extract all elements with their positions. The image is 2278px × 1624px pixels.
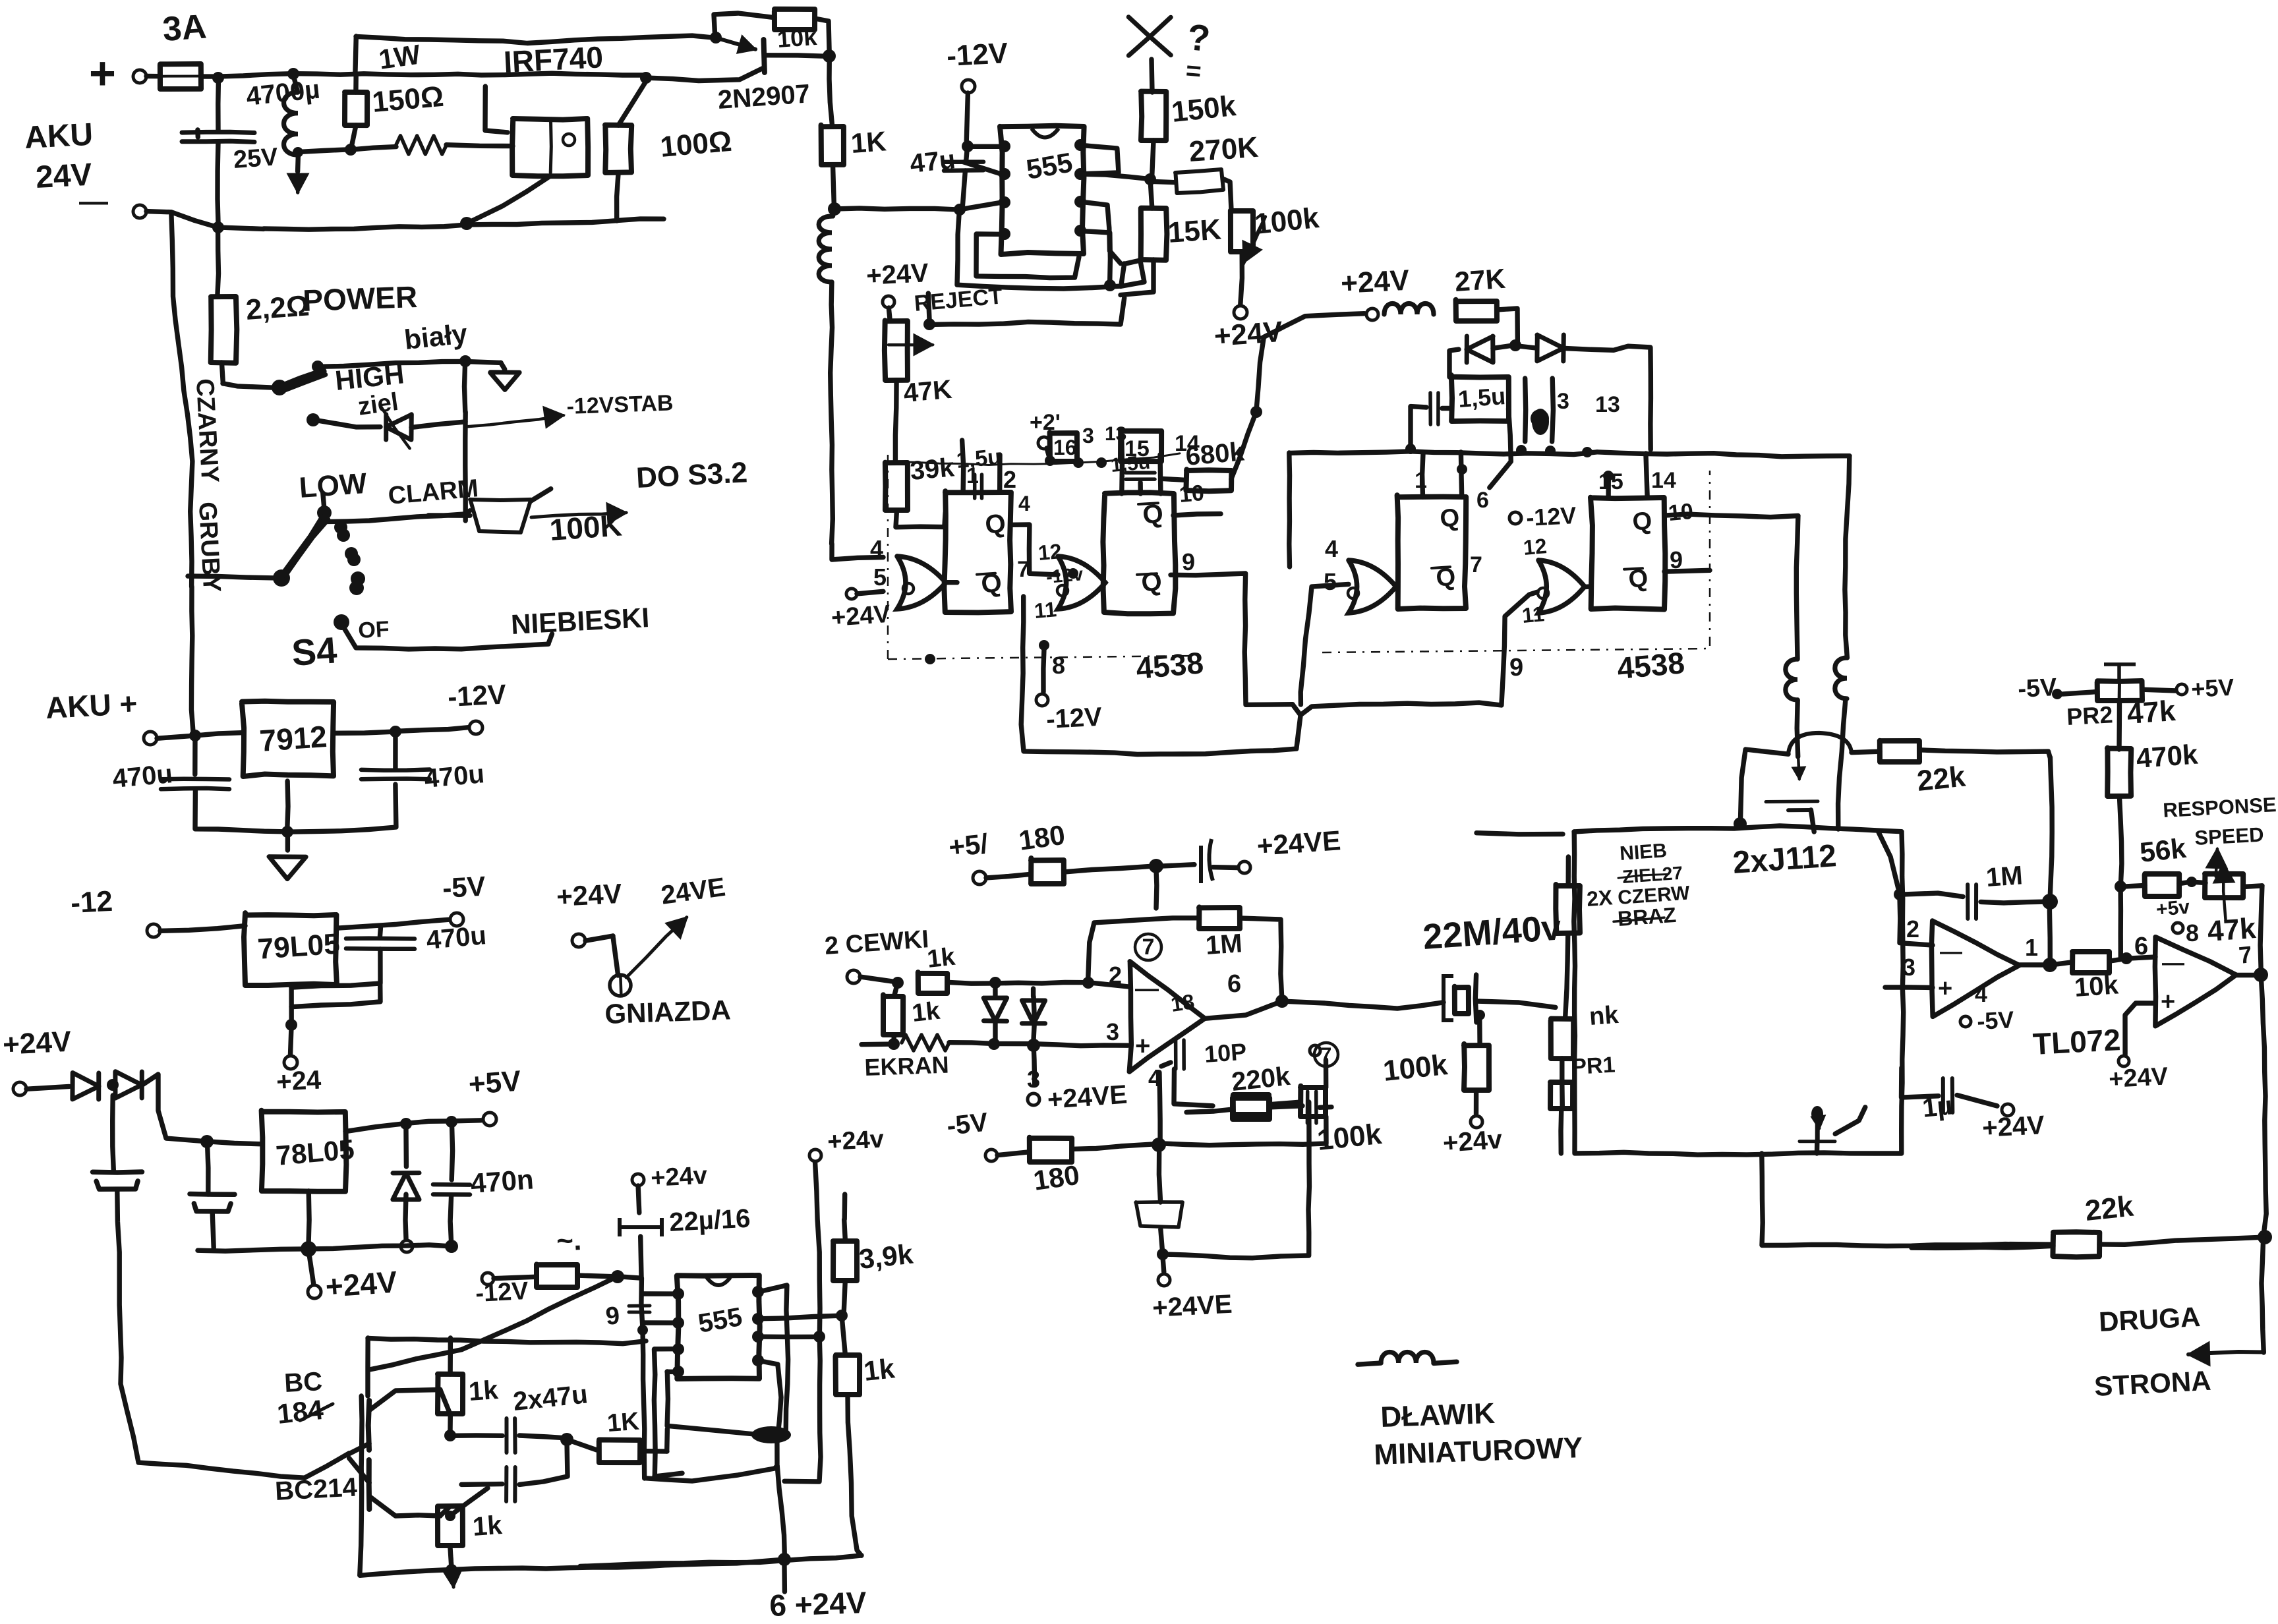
svg-text:6 +24V: 6 +24V	[769, 1585, 867, 1623]
svg-text:1k: 1k	[911, 997, 942, 1028]
svg-text:10k: 10k	[776, 23, 819, 53]
svg-text:-5V: -5V	[442, 871, 486, 904]
svg-text:4: 4	[1975, 982, 1987, 1007]
svg-text:47K: 47K	[902, 375, 953, 408]
svg-text:10: 10	[1178, 480, 1205, 507]
svg-text:BRAZ: BRAZ	[1617, 903, 1677, 931]
svg-text:GRUBY: GRUBY	[193, 501, 225, 593]
svg-text:=: =	[1184, 56, 1202, 86]
svg-text:+24V: +24V	[831, 600, 892, 632]
svg-text:+24: +24	[276, 1065, 322, 1097]
svg-text:2X: 2X	[1586, 885, 1614, 911]
svg-text:2,2Ω: 2,2Ω	[245, 289, 310, 326]
svg-text:39k: 39k	[909, 453, 956, 486]
svg-text:1K: 1K	[850, 125, 887, 159]
svg-text:10P: 10P	[1204, 1038, 1248, 1068]
svg-text:DRUGA: DRUGA	[2098, 1301, 2201, 1337]
svg-text:1M: 1M	[1985, 861, 2024, 892]
svg-text:—: —	[1940, 939, 1962, 964]
svg-text:3: 3	[1027, 1066, 1040, 1093]
svg-text:12: 12	[1522, 534, 1548, 560]
svg-text:56k: 56k	[2138, 832, 2188, 868]
svg-text:-12V: -12V	[1045, 703, 1103, 734]
svg-text:1k: 1k	[468, 1376, 500, 1406]
svg-text:470u: 470u	[425, 921, 488, 955]
svg-text:AKU +: AKU +	[45, 686, 138, 725]
svg-text:100K: 100K	[548, 507, 623, 547]
svg-text:1k: 1k	[472, 1511, 504, 1542]
svg-text:4: 4	[1018, 492, 1030, 515]
svg-text:6: 6	[1476, 488, 1489, 513]
svg-text:1: 1	[2025, 934, 2038, 961]
svg-text:+: +	[2161, 988, 2175, 1016]
svg-text:+5/: +5/	[947, 828, 989, 863]
svg-text:5: 5	[873, 564, 887, 591]
svg-text:4: 4	[1325, 535, 1338, 562]
svg-text:+24VE: +24VE	[1152, 1290, 1233, 1323]
svg-text:+24v: +24v	[1442, 1125, 1504, 1158]
svg-text:22k: 22k	[2084, 1190, 2136, 1227]
svg-text:22µ/16: 22µ/16	[668, 1204, 751, 1237]
svg-text:+24v: +24v	[650, 1162, 708, 1192]
svg-text:STRONA: STRONA	[2093, 1365, 2212, 1402]
svg-text:100Ω: 100Ω	[659, 125, 734, 163]
svg-text:OF: OF	[357, 617, 390, 643]
svg-text:1,5u: 1,5u	[955, 444, 1002, 473]
svg-text:-5V: -5V	[2017, 674, 2058, 703]
svg-text:470k: 470k	[2135, 739, 2199, 774]
svg-text:180: 180	[1032, 1159, 1082, 1196]
svg-text:Q: Q	[983, 509, 1007, 540]
svg-text:PR2: PR2	[2066, 701, 2113, 730]
svg-text:LOW: LOW	[298, 467, 368, 504]
svg-text:+: +	[89, 47, 116, 99]
svg-text:79L05: 79L05	[256, 927, 341, 966]
svg-text:+24v: +24v	[827, 1126, 885, 1156]
svg-text:—: —	[2162, 950, 2184, 975]
svg-text:1M: 1M	[1205, 929, 1244, 960]
svg-text:47k: 47k	[2126, 695, 2176, 730]
svg-text:9: 9	[1182, 548, 1195, 575]
svg-text:POWER: POWER	[303, 279, 418, 318]
svg-text:15K: 15K	[1167, 213, 1222, 249]
svg-text:100k: 100k	[1382, 1049, 1449, 1087]
svg-text:1k: 1k	[926, 943, 957, 973]
svg-text:Q: Q	[1439, 504, 1461, 533]
svg-text:100k: 100k	[1316, 1118, 1384, 1157]
svg-text:-12: -12	[70, 885, 113, 919]
svg-text:+: +	[1938, 975, 1952, 1002]
svg-text:PR1: PR1	[1571, 1053, 1616, 1080]
svg-text:18: 18	[1169, 989, 1196, 1016]
svg-text:220k: 220k	[1230, 1062, 1292, 1097]
svg-text:3: 3	[1082, 424, 1094, 448]
svg-text:BC: BC	[283, 1367, 323, 1398]
svg-text:7912: 7912	[258, 719, 328, 758]
svg-text:4: 4	[870, 535, 883, 562]
svg-text:+5v: +5v	[2155, 896, 2191, 921]
svg-text:100k: 100k	[1253, 202, 1321, 241]
svg-text:3: 3	[1902, 954, 1915, 981]
svg-text:SPEED: SPEED	[2194, 823, 2265, 850]
svg-text:-12V: -12V	[946, 37, 1009, 72]
svg-text:+24V: +24V	[324, 1264, 398, 1303]
svg-text:—: —	[79, 185, 108, 217]
svg-text:?: ?	[1186, 16, 1212, 59]
svg-text:nk: nk	[1589, 1001, 1620, 1031]
svg-text:+24V: +24V	[1981, 1111, 2045, 1143]
svg-text:CZARNY: CZARNY	[190, 378, 223, 483]
svg-text:—: —	[1135, 975, 1159, 1002]
svg-text:2xJ112: 2xJ112	[1732, 838, 1838, 881]
svg-text:+24VE: +24VE	[1047, 1080, 1128, 1115]
svg-text:4538: 4538	[1134, 645, 1204, 685]
svg-text:25V: 25V	[233, 143, 279, 174]
svg-text:-12V: -12V	[447, 678, 507, 712]
svg-text:Q: Q	[1140, 567, 1163, 598]
svg-text:150Ω: 150Ω	[371, 80, 446, 119]
svg-text:470u: 470u	[423, 759, 486, 794]
svg-text:DO S3.2: DO S3.2	[635, 456, 748, 494]
svg-text:22k: 22k	[1915, 760, 1968, 797]
svg-text:180: 180	[1017, 819, 1067, 856]
svg-text:11: 11	[1033, 597, 1057, 623]
svg-text:2: 2	[1906, 915, 1919, 942]
svg-text:TL072: TL072	[2032, 1022, 2121, 1061]
svg-text:1K: 1K	[606, 1408, 641, 1437]
svg-text:7: 7	[2238, 941, 2254, 969]
svg-text:ziel: ziel	[356, 388, 399, 421]
svg-text:1W: 1W	[377, 39, 423, 75]
svg-text:+24VE: +24VE	[1256, 825, 1341, 861]
svg-text:9: 9	[1509, 654, 1523, 681]
svg-text:EKRAN: EKRAN	[864, 1051, 949, 1081]
svg-text:1k: 1k	[862, 1352, 896, 1387]
svg-text:GNIAZDA: GNIAZDA	[604, 994, 732, 1029]
svg-text:16: 16	[1053, 436, 1077, 459]
svg-text:+24V: +24V	[1340, 264, 1411, 300]
svg-text:+: +	[1135, 1031, 1150, 1060]
svg-text:-12VSTAB: -12VSTAB	[566, 390, 674, 419]
svg-text:-5V: -5V	[1976, 1006, 2014, 1035]
svg-text:BC214: BC214	[274, 1472, 358, 1505]
svg-text:10k: 10k	[2074, 970, 2120, 1002]
svg-text:13: 13	[1105, 423, 1126, 445]
svg-text:NIEB: NIEB	[1619, 840, 1668, 865]
svg-text:7: 7	[1142, 935, 1155, 960]
svg-text:+24V: +24V	[556, 878, 623, 912]
svg-text:13: 13	[1595, 392, 1620, 417]
svg-text:+5V: +5V	[2190, 674, 2234, 703]
svg-text:~.: ~.	[556, 1224, 582, 1258]
svg-text:Q: Q	[1631, 507, 1654, 536]
svg-text:3A: 3A	[161, 7, 208, 48]
svg-text:2: 2	[1003, 466, 1016, 493]
svg-text:+24V: +24V	[2108, 1062, 2169, 1093]
svg-text:14: 14	[1651, 468, 1676, 493]
svg-text:biały: biały	[403, 318, 469, 355]
svg-text:1: 1	[1415, 468, 1427, 493]
svg-text:-12V: -12V	[1525, 502, 1577, 531]
svg-text:5: 5	[1324, 568, 1337, 595]
svg-text:+24V: +24V	[865, 258, 929, 291]
svg-text:3: 3	[1557, 389, 1569, 414]
svg-text:6: 6	[1227, 970, 1241, 998]
svg-text:DŁAWIK: DŁAWIK	[1380, 1397, 1496, 1434]
svg-text:8: 8	[2186, 919, 2199, 946]
svg-text:12: 12	[1037, 539, 1063, 565]
svg-text:470n: 470n	[469, 1163, 535, 1199]
svg-text:11: 11	[1521, 602, 1545, 627]
svg-text:-5V: -5V	[945, 1108, 989, 1141]
svg-text:1,5u: 1,5u	[1457, 382, 1507, 413]
svg-text:470u: 470u	[111, 759, 174, 794]
svg-text:4538: 4538	[1616, 645, 1685, 685]
svg-text:IRF740: IRF740	[503, 40, 604, 79]
svg-text:270K: 270K	[1188, 131, 1260, 168]
svg-text:7: 7	[1321, 1044, 1332, 1066]
svg-text:27K: 27K	[1453, 263, 1506, 297]
svg-text:3,9k: 3,9k	[858, 1238, 915, 1275]
svg-text:9: 9	[604, 1302, 621, 1331]
svg-text:-12V: -12V	[475, 1277, 529, 1308]
svg-text:S4: S4	[290, 629, 338, 674]
svg-text:AKU: AKU	[24, 117, 94, 156]
svg-text:8: 8	[1052, 652, 1065, 679]
svg-text:7: 7	[1017, 557, 1030, 582]
svg-text:3: 3	[1106, 1018, 1119, 1045]
svg-text:+24V: +24V	[2, 1026, 73, 1061]
svg-text:7: 7	[1470, 552, 1482, 577]
svg-text:+5V: +5V	[467, 1065, 522, 1101]
svg-text:150k: 150k	[1170, 90, 1238, 129]
